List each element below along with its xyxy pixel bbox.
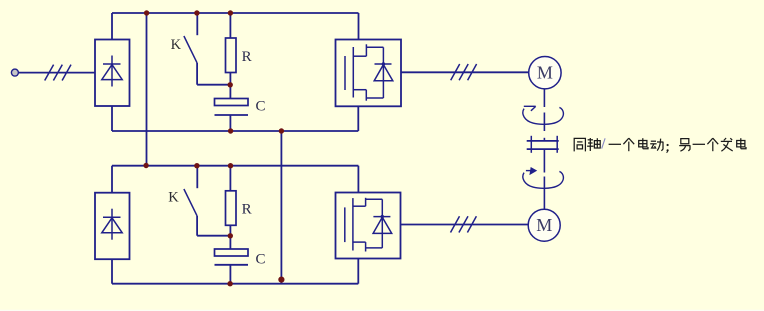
input terminal node [11,69,18,76]
node: lower rail / resistor R2 [228,163,233,168]
wire: top DC- rail [112,130,358,132]
freewheel diode D4 inside inverter V2 [373,199,392,248]
resistor R2 [226,191,237,226]
node: top DC- rail / DC- link [279,128,284,133]
switch K2 [184,166,231,236]
svg-text:M: M [536,215,552,235]
freewheel diode D2 inside inverter V1 [374,47,393,98]
glyph 发 [721,138,733,151]
wire: inverter V2 output to motor M2 [401,224,529,226]
coupling between shafts [527,136,559,153]
wire: inverter V2 top lead [357,166,359,193]
glyph slash [602,138,605,148]
svg-text:C: C [256,251,266,267]
wire: inverter V1 bottom lead [357,106,359,131]
svg-text:R: R [242,49,252,65]
switch K1 [184,13,231,85]
glyph 同 [574,138,585,151]
shaft between motor M1 and motor M2 [543,89,545,209]
wire: inverter V1 output to motor M1 [401,71,529,73]
lower top rail wire [112,165,358,167]
diode D3 inside rectifier U2 [102,209,122,240]
IGBT Q1 inside inverter V1 [345,44,383,100]
IGBT Q2 inside inverter V2 [345,198,383,252]
node: top rail / switch K1 [194,10,199,15]
glyph 一 [609,143,621,145]
node: top rail / resistor R1 [228,10,233,15]
wire: inverter V1 top lead [358,13,360,40]
diode D1 inside rectifier U1 [102,56,122,87]
motor M1 [529,56,561,88]
bottom edge artifact [0,310,764,311]
glyph 动 [650,139,663,151]
rectifier U1 box [95,40,130,107]
wire: resistor R1 top lead [229,13,231,38]
wire: rectifier U1 top lead [111,13,113,40]
wire: DC+ link to lower converter [146,13,148,166]
wire: rectifier U2 top lead [111,166,113,193]
node: R1-C1 junction [228,82,233,87]
wire: rectifier U2 bottom lead [111,259,113,284]
motor M2 [528,209,560,241]
three-phase slashes on input wire [45,65,71,81]
glyph 个 (second) [707,138,718,151]
rotation arrow around lower shaft [523,168,564,189]
wire: resistor R1 bottom lead [229,73,231,99]
svg-text:R: R [242,202,252,218]
node: lower rail / switch K2 [194,163,199,168]
wire: rectifier U1 bottom lead [111,106,113,131]
node: top DC- rail / C1 [228,128,233,133]
glyph 个 [623,138,634,151]
three-phase slashes on motor M2 feed [451,216,477,232]
svg-text:M: M [537,62,553,82]
capacitor C1 [215,99,249,116]
inverter V1 box [336,40,402,107]
resistor R1 [226,38,237,73]
svg-text:K: K [168,189,179,205]
annotation text: 同轴/一个电动；另一个发电 [574,138,746,153]
glyph 电 [639,138,648,149]
wire: AC input to rectifier U1 [19,72,96,74]
node: R2-C2 junction [228,233,233,238]
node: lower DC- rail / C2 [227,281,232,286]
svg-text:C: C [256,99,266,115]
glyph 另 [679,139,690,152]
inverter V2 box [336,193,401,259]
node: top rail / DC+ link [144,10,149,15]
wire: capacitor C2 bottom lead [229,265,231,284]
glyph 轴 [587,138,600,151]
wire: resistor R2 bottom lead [229,225,231,249]
rotation arrow around upper shaft [523,106,564,124]
svg-text:K: K [171,37,182,53]
node: lower rail / DC+ link [143,163,148,168]
glyph 电 (second) [737,138,746,149]
glyph ； [667,144,669,153]
glyph 一 (second) [693,143,705,145]
capacitor C2 [215,249,249,265]
wire: resistor R2 top lead [229,166,231,191]
wire: lower DC- rail [112,283,358,285]
wire: DC- link to lower converter [280,131,282,284]
node: lower DC- rail / DC- link [278,277,284,283]
wire: capacitor C1 bottom lead [229,115,231,131]
rectifier U2 box [95,193,130,260]
junction dots (maroon) [143,10,284,286]
three-phase slashes on motor M1 feed [451,64,477,80]
wire: top DC+ rail [112,12,359,14]
wire: inverter V2 bottom lead [357,259,359,284]
